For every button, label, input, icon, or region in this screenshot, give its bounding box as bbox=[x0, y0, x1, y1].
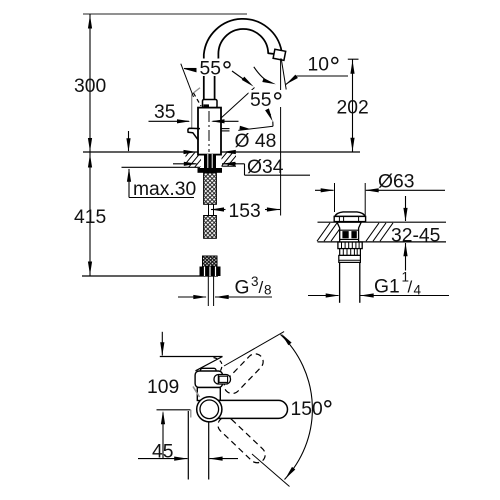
dimension 10deg bbox=[286, 75, 298, 85]
svg-text:Ø63: Ø63 bbox=[378, 172, 414, 193]
dimension 32-45 top arrow bbox=[405, 196, 407, 221]
svg-text:150: 150 bbox=[291, 399, 323, 420]
svg-text:202: 202 bbox=[337, 98, 369, 119]
svg-text:55: 55 bbox=[250, 90, 271, 111]
dimension G3/8 bbox=[178, 296, 206, 298]
faucet body top view: upper block bbox=[195, 371, 222, 388]
basin deck lines (32-45) bbox=[318, 221, 447, 223]
body centerline bbox=[208, 111, 210, 152]
grey stub on axis bbox=[190, 410, 192, 418]
Ø63 extension lines bbox=[334, 183, 336, 212]
overflow windows bbox=[342, 231, 348, 238]
svg-text:45: 45 bbox=[152, 442, 173, 463]
base column below pivot bbox=[187, 411, 189, 480]
top-view reference line bbox=[160, 356, 223, 358]
outlet stream line (10 deg) bbox=[281, 59, 286, 90]
max.30 lower arrow bbox=[128, 169, 130, 198]
deck / mounting surface line with Ø48 dimension line bbox=[83, 151, 360, 153]
svg-text:415: 415 bbox=[74, 207, 106, 228]
deck hatching right of valve bbox=[366, 223, 379, 241]
svg-text:/: / bbox=[259, 278, 264, 297]
55deg right leader arrow bbox=[232, 71, 250, 84]
hose connector nut bbox=[200, 267, 221, 277]
label 55deg (spout) bbox=[249, 90, 284, 107]
riser collar bbox=[203, 100, 218, 108]
spout top-view dashed arc bbox=[214, 358, 222, 373]
dimension 32-45 bottom arrow bbox=[405, 243, 407, 271]
valve cap skirt bbox=[334, 216, 365, 221]
dimension 300 vertical line bbox=[89, 14, 91, 152]
handle bar top view (solid) bbox=[205, 400, 288, 418]
55deg spout swivel arc bbox=[254, 67, 270, 83]
deck hatching left of valve bbox=[317, 223, 330, 241]
bottom reference line (hose end) bbox=[82, 275, 218, 277]
svg-text:35: 35 bbox=[154, 102, 175, 123]
spout gooseneck tube bbox=[204, 19, 283, 100]
dimension Ø34 bbox=[173, 163, 197, 165]
svg-text:55: 55 bbox=[200, 59, 221, 80]
svg-text:300: 300 bbox=[74, 76, 106, 97]
dimension G1 1/4 bbox=[308, 295, 339, 297]
svg-text:109: 109 bbox=[147, 377, 179, 398]
150deg lower boundary line bbox=[252, 454, 290, 487]
valve nut below deck bbox=[338, 242, 362, 249]
top reference line (spout height) bbox=[83, 13, 247, 15]
svg-text:10: 10 bbox=[308, 55, 329, 76]
deck underside line bbox=[122, 166, 201, 168]
spout top-view diagonal edge bbox=[196, 357, 223, 371]
55deg spout leader arrow down bbox=[267, 110, 270, 115]
svg-text:G1: G1 bbox=[374, 277, 400, 298]
handle ghost lower (dashed) bbox=[215, 414, 269, 466]
hose tails below connector bbox=[207, 276, 209, 306]
lever handle (closed) bbox=[188, 128, 200, 140]
150deg upper boundary line bbox=[224, 332, 284, 366]
faucet body bbox=[198, 108, 221, 155]
faucet body top view: top bump bbox=[201, 368, 217, 374]
hose connector thread G3/8 bbox=[203, 256, 218, 267]
dimension 415 vertical line bbox=[89, 152, 91, 276]
leader slant line bbox=[238, 126, 273, 130]
handle axis line bbox=[157, 409, 191, 411]
svg-text:3: 3 bbox=[251, 274, 259, 289]
svg-text:Ø34: Ø34 bbox=[247, 157, 284, 178]
grey lever mark bbox=[193, 387, 200, 398]
dimension 109 lower arrow bbox=[162, 413, 164, 459]
55deg lever angle right ray bbox=[221, 88, 255, 119]
handle ghost upper (dashed) bbox=[221, 351, 267, 397]
outlet vertical extension line bbox=[280, 59, 282, 216]
threaded shank through deck bbox=[204, 154, 216, 168]
svg-text:Ø 48: Ø 48 bbox=[235, 131, 277, 152]
svg-text:153: 153 bbox=[229, 201, 261, 222]
aerator outlet block bbox=[273, 49, 286, 60]
dimension 202 bbox=[348, 58, 359, 60]
dimension 153 bbox=[211, 209, 226, 211]
tailpipe bbox=[339, 262, 341, 302]
dimension 35 bbox=[149, 120, 190, 122]
valve body in deck bbox=[337, 222, 361, 242]
dimension Ø48 arrows bbox=[184, 150, 198, 154]
dimension 109 upper arrow bbox=[161, 332, 163, 356]
svg-text:/: / bbox=[408, 278, 413, 297]
valve thread band bbox=[340, 249, 361, 256]
55deg lever angle left ray bbox=[181, 64, 194, 97]
valve collar bbox=[339, 255, 361, 262]
lever ghost (open position, grey) bbox=[191, 94, 193, 128]
svg-text:G: G bbox=[235, 278, 250, 299]
supply hose braided section 2 bbox=[204, 216, 217, 239]
spout swivel side-position mark bbox=[221, 128, 230, 130]
pivot ring inner bbox=[200, 400, 219, 419]
supply hose braided section 1 bbox=[204, 173, 217, 205]
valve cap dome bbox=[335, 212, 365, 217]
pivot ring outer bbox=[197, 397, 222, 422]
faucet body top view: column bbox=[197, 388, 220, 401]
deck hatching right of shank bbox=[214, 151, 246, 168]
55deg left leader arrow bbox=[184, 68, 198, 70]
faucet body top view: right protrusion bbox=[214, 375, 231, 385]
svg-text:8: 8 bbox=[264, 283, 272, 298]
deck underside right segment bbox=[222, 165, 237, 167]
max.30 upper arrow bbox=[128, 131, 130, 151]
150deg swivel arc bbox=[281, 335, 313, 480]
label 55deg (lever) bbox=[197, 59, 232, 77]
svg-text:4: 4 bbox=[414, 283, 422, 298]
hose break lines bbox=[208, 204, 210, 215]
deck hatching left of shank bbox=[176, 151, 214, 168]
mounting nut under deck bbox=[198, 168, 223, 173]
svg-text:32-45: 32-45 bbox=[391, 225, 440, 246]
dimension Ø63 bbox=[315, 189, 334, 191]
temperature indicator dot bbox=[204, 104, 210, 107]
lever ghost dashed edge bbox=[194, 93, 202, 106]
svg-text:max.30: max.30 bbox=[133, 179, 196, 200]
